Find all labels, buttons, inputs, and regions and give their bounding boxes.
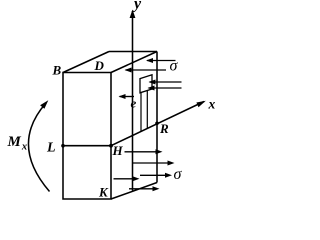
stress element parallelogram e [140, 75, 152, 93]
top face left edge [63, 52, 109, 73]
svg-text:σ: σ [170, 58, 179, 75]
moment arc M_x [28, 103, 49, 192]
svg-text:R: R [159, 121, 169, 136]
e dimension line left [140, 93, 142, 132]
svg-text:K: K [98, 185, 109, 200]
y-axis [132, 11, 134, 191]
svg-text:L: L [46, 141, 56, 156]
node H [109, 144, 113, 148]
sigma arrow A5 [119, 94, 135, 99]
tension arrow B1 [125, 149, 163, 154]
svg-text:D: D [94, 58, 105, 73]
tension arrow B2 [133, 161, 175, 166]
x-axis arrowhead [196, 101, 205, 108]
x-axis [111, 102, 204, 146]
element arrow A4 [148, 86, 182, 91]
top face back edge [109, 51, 157, 53]
svg-text:x: x [208, 97, 216, 112]
svg-text:y: y [132, 0, 142, 13]
svg-text:e: e [131, 96, 137, 111]
top face right edge [111, 52, 157, 73]
e dimension line right [146, 91, 148, 129]
sigma arrow A2 [125, 68, 167, 73]
front face of beam block [63, 73, 111, 200]
svg-text:B: B [52, 63, 62, 78]
right face bottom edge [111, 183, 157, 200]
right face back edge [156, 52, 158, 183]
neutral line L-H [63, 145, 111, 147]
element arrow A3 [149, 80, 182, 85]
tension arrow B5 [129, 186, 160, 191]
moment arc arrowhead [40, 100, 48, 109]
tension arrow B3 [140, 173, 172, 178]
y-axis arrowhead [130, 10, 136, 19]
svg-text:σ: σ [174, 166, 183, 183]
sigma arrow A1 top [146, 58, 176, 63]
tension arrow B4 [114, 176, 140, 181]
node R [155, 122, 159, 126]
node L [61, 144, 65, 148]
svg-text:H: H [112, 143, 124, 158]
